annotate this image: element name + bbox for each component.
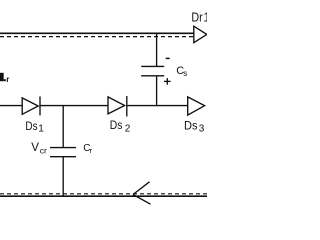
wire: middle bus left segment [0,105,22,107]
svg-text:r: r [6,75,9,84]
wire: Cr bottom vertical [62,157,64,197]
diode Ds3 (cathode bar cut off at edge) [188,97,205,115]
label Lr (bold L cut off at left edge) [0,73,4,81]
svg-text:s: s [183,69,187,78]
svg-text:2: 2 [125,124,131,135]
wire: Cs top vertical [156,33,158,66]
svg-text:Dr: Dr [191,10,203,25]
diode Ds1 [22,98,38,114]
svg-text:cr: cr [40,145,47,155]
wire: top dashed boundary line [0,36,194,38]
svg-text:Ds: Ds [25,119,37,133]
wire: Cr top vertical [62,106,64,148]
svg-text:1: 1 [38,124,44,135]
svg-text:V: V [31,142,39,154]
wire: Cs bottom vertical [156,76,158,106]
polarity plus of Cs [164,80,171,82]
wire: middle bus between Ds2 and Ds3 [127,105,188,107]
wire: bottom solid bus [0,195,207,197]
capacitor Cr [50,147,76,149]
capacitor Cs [141,65,164,67]
diode Dr1 (triangle, cathode cut off at edge) [194,26,207,43]
wire: middle bus between Ds1 and Ds2 [40,105,108,107]
diode Ds2 [108,97,125,114]
svg-text:Ds: Ds [110,118,123,132]
svg-text:3: 3 [199,124,205,135]
wire: top solid bus [0,32,194,34]
wire: bottom dashed boundary line [0,193,207,195]
polarity minus of Cs [166,57,170,59]
svg-text:1: 1 [203,10,207,25]
svg-text:Ds: Ds [184,119,198,133]
current direction arrow (iLr) on bottom bus [133,182,150,195]
